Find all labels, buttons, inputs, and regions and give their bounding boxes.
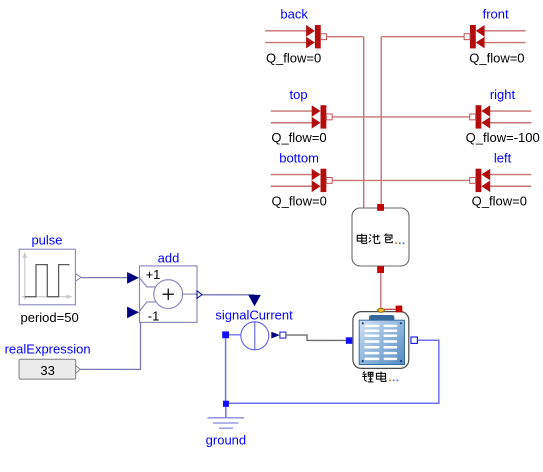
battery icon top tab <box>369 315 394 321</box>
svg-text:33: 33 <box>40 363 54 378</box>
pulse block <box>19 249 81 305</box>
battery pack top heat port <box>377 204 384 211</box>
wire signalCurrent left pin down to junction <box>225 338 227 401</box>
heat source right (mirrored) <box>470 105 531 128</box>
svg-text:realExpression: realExpression <box>5 342 91 357</box>
battery positive pin <box>346 337 353 344</box>
pulse y axis <box>24 257 26 300</box>
signalCurrent arrow <box>271 332 280 339</box>
wire battery pack bottom port to battery thermal port <box>380 273 382 309</box>
svg-text:bottom: bottom <box>279 151 319 166</box>
realExpression block <box>19 359 80 379</box>
battery component 锂电 <box>346 306 418 369</box>
svg-text:left: left <box>494 151 512 166</box>
wire realExpression to add <box>80 312 140 369</box>
add output connector <box>197 291 202 299</box>
heat source front (mirrored) <box>464 25 525 48</box>
signalCurrent circle <box>241 322 269 350</box>
wire junction to ground <box>225 407 227 418</box>
wire left bus vertical to battery pack top edge <box>363 37 365 209</box>
svg-text:front: front <box>483 7 509 22</box>
battery thermal tap (yellow) <box>378 308 385 312</box>
svg-text:Q_flow=0: Q_flow=0 <box>272 193 327 208</box>
add upper internal line <box>140 278 156 287</box>
battery pack name text 电池包... <box>357 234 404 245</box>
svg-text:right: right <box>490 87 516 102</box>
pulse waveform <box>25 265 70 297</box>
svg-text:pulse: pulse <box>31 232 62 247</box>
signalCurrent left pin <box>222 331 229 338</box>
add output internal line <box>183 293 197 295</box>
ground junction node <box>223 401 229 407</box>
heat source top <box>271 105 332 128</box>
battery heat port <box>396 306 403 313</box>
svg-text:period=50: period=50 <box>20 310 78 325</box>
wire left pin to circle <box>229 334 241 336</box>
svg-text:ground: ground <box>206 432 246 447</box>
signalCurrent diameter line <box>254 322 256 350</box>
svg-text:Q_flow=0: Q_flow=0 <box>472 193 527 208</box>
realExpression output connector <box>76 366 81 374</box>
battery icon corner dots <box>362 322 364 324</box>
svg-text:-1: -1 <box>148 308 160 323</box>
add lower internal line <box>140 302 157 311</box>
svg-text:+1: +1 <box>146 267 161 282</box>
battery pack component 电池包 <box>352 208 409 266</box>
svg-text:top: top <box>290 87 308 102</box>
svg-text:Q_flow=0: Q_flow=0 <box>271 130 326 145</box>
svg-text:signalCurrent: signalCurrent <box>215 308 293 323</box>
add input u2 triangle <box>127 307 139 319</box>
add block <box>127 266 202 323</box>
svg-text:Q_flow=-100: Q_flow=-100 <box>466 130 540 145</box>
add plus sign <box>163 289 174 300</box>
wire right bus vertical to battery pack port <box>380 37 382 205</box>
wire row2 top to right <box>332 116 470 118</box>
heat source back <box>265 25 326 48</box>
svg-text:Q_flow=0: Q_flow=0 <box>469 50 524 65</box>
ground symbol <box>208 418 245 428</box>
signalCurrent component <box>222 295 286 350</box>
wire add to signalCurrent <box>202 294 255 296</box>
battery negative pin (open) <box>411 337 417 343</box>
battery icon white bars <box>364 325 397 361</box>
svg-text:add: add <box>158 251 180 266</box>
add circle <box>154 280 183 309</box>
wire junction to battery negative (bottom run) <box>229 340 439 403</box>
wire front to right bus <box>381 36 464 38</box>
pulse x axis <box>22 296 70 298</box>
battery pack bottom heat port <box>377 266 384 273</box>
battery name text 锂电... <box>362 372 398 382</box>
signalCurrent input triangle <box>248 295 261 307</box>
battery heat port wire <box>384 308 395 310</box>
wire row3 bottom to left <box>332 179 470 181</box>
heat source bottom <box>271 169 332 192</box>
battery icon cell block <box>359 320 404 364</box>
heat source left (mirrored) <box>470 169 531 192</box>
wire signalCurrent to battery positive (gray) <box>286 335 346 340</box>
wire back to left bus <box>327 36 364 38</box>
svg-text:Q_flow=0: Q_flow=0 <box>266 50 321 65</box>
add input u1 triangle <box>127 272 139 284</box>
pulse output connector <box>76 274 82 282</box>
svg-text:back: back <box>280 7 308 22</box>
wire pulse to add <box>81 277 128 279</box>
signalCurrent right pin (open) <box>280 332 286 338</box>
